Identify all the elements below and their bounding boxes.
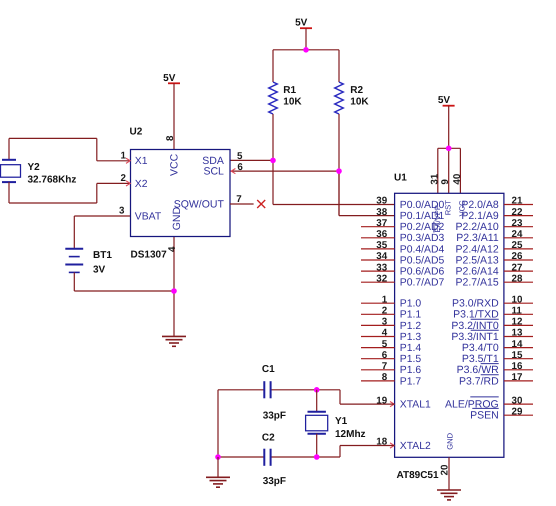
transistor U1 AT89C51 chip body [394,172,504,481]
wire pin 36 stub / name P0.3/AD3 [361,229,444,244]
pin arrow U2 X1 [126,158,130,163]
ground (below U2) [162,336,186,346]
wire pin 7 stub / name P1.6 [361,361,421,376]
svg-text:33pF: 33pF [263,410,286,421]
pin 30 ALE/PROG [445,395,533,410]
svg-text:P1.3: P1.3 [400,332,422,343]
svg-text:P0.0/AD0: P0.0/AD0 [400,200,445,211]
wire pin 25 stub / name P2.4/A12 [455,240,533,255]
svg-text:P3.7/RD: P3.7/RD [459,375,499,387]
svg-text:12Mhz: 12Mhz [335,429,366,440]
wire pin 21 stub / name P2.0/A8 [461,196,533,211]
pin 18 XTAL2 [376,437,431,452]
pin arrow U2 SCL [231,169,235,174]
svg-text:XTAL1: XTAL1 [400,400,431,411]
wire pin 33 stub / name P0.6/AD6 [361,262,444,277]
wire pin 26 stub / name P2.5/A13 [455,251,533,266]
wire battery to ground net [74,272,174,291]
svg-text:P0.4/AD4: P0.4/AD4 [400,244,445,255]
svg-text:P0.5/AD5: P0.5/AD5 [400,255,445,266]
wire pin 35 stub / name P0.4/AD4 [361,240,444,255]
node junction 5V rail [303,47,309,53]
svg-text:3: 3 [119,206,125,217]
wire pin 3 stub / name P1.2 [361,317,421,332]
power 5V symbol (U2 VCC) [163,73,180,150]
wire SDA net (U2.5 to R1 to U1.39) [230,114,395,205]
svg-text:GND: GND [446,432,455,449]
svg-text:Y1: Y1 [335,416,348,427]
svg-text:29: 29 [512,406,523,417]
svg-text:39: 39 [376,196,387,207]
svg-text:R1: R1 [283,85,296,96]
node junction SDA/R1 [270,158,276,164]
svg-text:6: 6 [237,162,243,173]
wire pin 11 stub / name P3.1/TXD [453,306,533,321]
ground (crystal circuit) [206,477,230,487]
wire pin 16 stub / name P3.6/WR [457,361,533,376]
svg-text:GND: GND [171,207,183,231]
wire pin 39 stub / name P0.0/AD0 [376,196,444,211]
wire U1 GND pin 20 [439,457,450,490]
svg-text:Y2: Y2 [28,162,41,173]
svg-text:U1: U1 [394,172,407,183]
svg-text:U2: U2 [130,126,143,137]
pin 29 PSEN [470,406,533,421]
svg-text:P1.4: P1.4 [400,343,422,354]
svg-text:5V: 5V [295,18,308,29]
svg-text:P0.7/AD7: P0.7/AD7 [400,278,445,289]
svg-text:14: 14 [512,339,523,350]
svg-text:P1.7: P1.7 [400,376,422,387]
svg-text:X1: X1 [135,156,148,167]
svg-text:31: 31 [429,173,440,184]
svg-text:21: 21 [512,196,523,207]
svg-text:1: 1 [121,151,127,162]
wire SCL net (U2.6 to R2 to U1.38) [230,114,395,216]
wire pin 12 stub / name P3.2/INT0 [451,317,533,332]
svg-text:3: 3 [382,317,388,328]
svg-text:2: 2 [382,306,388,317]
wire pin 17 stub / name P3.7/RD [459,372,533,387]
svg-text:12: 12 [512,317,523,328]
svg-text:28: 28 [512,273,523,284]
svg-text:37: 37 [376,218,387,229]
svg-text:5V: 5V [438,95,451,106]
wire pin 2 stub / name P1.1 [361,306,421,321]
wire pin 5 stub / name P1.4 [361,339,421,354]
pin number 40 [452,173,463,184]
wire XTAL2 net [218,390,395,457]
svg-text:23: 23 [512,218,523,229]
pin 19 XTAL1 [376,395,431,410]
svg-text:9: 9 [440,179,451,185]
svg-text:13: 13 [512,328,523,339]
pin number 9 [440,179,451,185]
svg-text:24: 24 [512,229,523,240]
wire pin 32 stub / name P0.7/AD7 [361,273,444,288]
svg-text:30: 30 [512,395,523,406]
op-amp U2 DS1307 chip body [119,126,243,260]
svg-text:P0.3/AD3: P0.3/AD3 [400,233,445,244]
svg-text:R2: R2 [350,85,363,96]
svg-text:VBAT: VBAT [135,211,162,222]
svg-text:1: 1 [382,294,388,305]
pin name VCC (U1) [457,200,466,217]
svg-text:X2: X2 [135,179,148,190]
svg-text:SCL: SCL [203,166,224,178]
svg-text:27: 27 [512,262,523,273]
wire pin 13 stub / name P3.3/INT1 [451,328,533,343]
svg-text:7: 7 [382,361,388,372]
pin arrow U2 X2 [126,181,130,186]
svg-text:5: 5 [382,339,388,350]
wire pin 34 stub / name P0.5/AD5 [361,251,444,266]
wire pin 6 stub / name P1.5 [361,350,421,365]
svg-text:10K: 10K [350,96,369,107]
power 5V symbol (top, above R1/R2) [295,18,312,50]
svg-text:15: 15 [512,350,523,361]
svg-text:C1: C1 [262,364,275,375]
wire pin 37 stub / name P0.2/AD2 [361,218,444,233]
svg-text:4: 4 [382,328,388,339]
wire pin 38 stub / name P0.1/AD1 [376,207,444,222]
svg-text:36: 36 [376,229,387,240]
svg-text:P1.1: P1.1 [400,310,422,321]
svg-text:XTAL2: XTAL2 [400,441,431,452]
wire pin 24 stub / name P2.3/A11 [456,229,533,244]
svg-text:6: 6 [382,350,388,361]
node junction U1 5V [446,146,452,152]
node junction SCL/R2 [336,168,342,174]
svg-text:PSEN: PSEN [470,410,499,422]
wire pin 8 stub / name P1.7 [361,372,421,387]
wire pin 28 stub / name P2.7/A15 [455,273,533,288]
wire pin 27 stub / name P2.6/A14 [455,262,533,277]
node junction battery/U2 GND [171,288,177,294]
svg-text:8: 8 [382,372,388,383]
svg-text:4: 4 [167,246,178,252]
ground (below U1) [437,490,461,500]
svg-text:22: 22 [512,207,523,218]
svg-text:17: 17 [512,372,523,383]
svg-text:34: 34 [376,251,387,262]
resistor R2 [335,50,370,114]
pin name RST [443,200,452,216]
crystal Y2 [1,160,77,186]
wire pin 23 stub / name P2.2/A10 [455,218,533,233]
wire pin 10 stub / name P3.0/RXD [452,294,533,309]
svg-text:C2: C2 [262,432,275,443]
node junction Y1 top [314,387,320,393]
battery BT1 [65,249,112,276]
wire pin 22 stub / name P2.1/A9 [461,207,533,222]
svg-text:P1.2: P1.2 [400,321,422,332]
svg-text:P1.6: P1.6 [400,365,422,376]
wire U2 X2 net [9,182,131,203]
wire pin 1 stub / name P1.0 [361,294,421,309]
wire 5V rail to resistor tops [273,49,339,51]
svg-text:AT89C51: AT89C51 [397,470,439,481]
svg-text:26: 26 [512,251,523,262]
svg-text:2: 2 [121,173,127,184]
svg-text:5: 5 [237,151,243,162]
svg-text:P1.5: P1.5 [400,354,422,365]
wire to ground (crystal circuit) [217,457,219,477]
wire U2 X1 net [9,138,131,160]
wire XTAL1 net [218,390,395,404]
svg-text:RST: RST [443,200,452,216]
svg-text:16: 16 [512,361,523,372]
capacitor C1 [262,364,286,422]
svg-text:40: 40 [452,173,463,184]
svg-text:25: 25 [512,240,523,251]
svg-text:P0.1/AD1: P0.1/AD1 [400,211,445,222]
pin number 31 [429,173,440,184]
svg-text:10: 10 [512,294,523,305]
pin name GND (U1) [446,432,455,449]
svg-text:3V: 3V [93,264,106,275]
svg-text:11: 11 [512,306,523,317]
svg-text:VCC: VCC [169,153,181,176]
svg-text:DS1307: DS1307 [131,249,168,260]
wire pin 4 stub / name P1.3 [361,328,421,343]
wire SQW/OUT stub [230,203,254,205]
svg-text:35: 35 [376,240,387,251]
svg-text:8: 8 [165,135,176,141]
power 5V symbol (U1 VCC/RST/EA) [438,95,455,148]
svg-text:P1.0: P1.0 [400,299,422,310]
capacitor C2 [262,432,286,487]
svg-text:32.768Khz: 32.768Khz [28,174,77,185]
svg-text:33: 33 [376,262,387,273]
svg-text:P0.2/AD2: P0.2/AD2 [400,222,445,233]
resistor R1 [269,50,303,114]
wire pin 15 stub / name P3.5/T1 [462,350,533,365]
svg-text:38: 38 [376,207,387,218]
wire U2 GND pin 4 down [173,237,175,337]
node junction Y1 bottom [314,454,320,460]
svg-text:P0.6/AD6: P0.6/AD6 [400,267,445,278]
svg-text:BT1: BT1 [93,250,112,261]
svg-text:32: 32 [376,273,387,284]
svg-text:33pF: 33pF [263,476,286,487]
svg-text:10K: 10K [283,96,302,107]
wire U1 top pins rail [438,148,461,193]
wire VBAT net [74,216,130,249]
svg-text:5V: 5V [163,73,176,84]
svg-text:20: 20 [439,464,450,475]
crystal Y1 [306,390,366,457]
svg-text:P2.7/A15: P2.7/A15 [455,277,498,289]
no-connect X on SQW/OUT [257,200,265,208]
pin name EA/VPP [433,205,442,232]
wire pin 14 stub / name P3.4/T0 [462,339,533,354]
node junction C2/ground [215,454,221,460]
